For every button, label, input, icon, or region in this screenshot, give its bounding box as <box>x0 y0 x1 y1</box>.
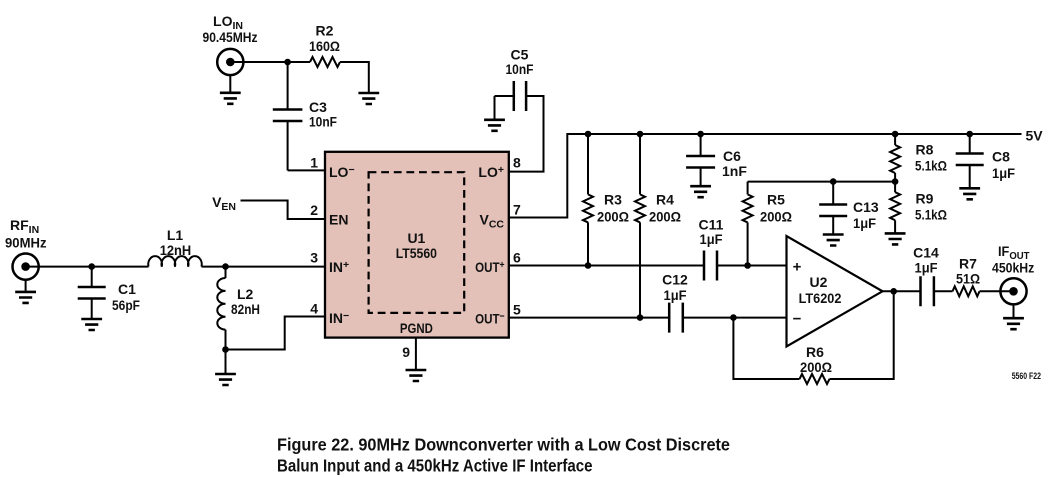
svg-text:12nH: 12nH <box>160 242 192 258</box>
svg-text:Balun Input and a 450kHz Activ: Balun Input and a 450kHz Active IF Inter… <box>277 455 593 475</box>
svg-text:90.45MHz: 90.45MHz <box>203 29 258 45</box>
svg-text:U2: U2 <box>810 274 828 290</box>
svg-text:5560 F22: 5560 F22 <box>1012 371 1041 381</box>
svg-text:200Ω: 200Ω <box>597 209 629 225</box>
svg-text:5.1kΩ: 5.1kΩ <box>915 158 947 174</box>
svg-text:R5: R5 <box>767 192 785 208</box>
svg-text:RFIN: RFIN <box>10 217 39 236</box>
svg-text:6: 6 <box>513 250 521 266</box>
svg-text:R2: R2 <box>316 23 334 39</box>
svg-text:7: 7 <box>513 202 521 218</box>
svg-text:5.1kΩ: 5.1kΩ <box>915 207 947 223</box>
svg-text:5V: 5V <box>1026 128 1044 144</box>
svg-text:2: 2 <box>310 202 318 218</box>
svg-text:R7: R7 <box>959 256 977 272</box>
svg-text:U1: U1 <box>407 230 425 246</box>
svg-text:160Ω: 160Ω <box>309 38 340 54</box>
svg-text:450kHz: 450kHz <box>992 260 1034 276</box>
svg-text:1nF: 1nF <box>722 163 747 179</box>
svg-text:LT6202: LT6202 <box>799 290 842 306</box>
svg-text:PGND: PGND <box>400 320 433 336</box>
svg-text:56pF: 56pF <box>112 297 140 313</box>
svg-text:200Ω: 200Ω <box>800 359 832 375</box>
svg-text:9: 9 <box>402 344 410 360</box>
svg-text:R9: R9 <box>916 191 934 207</box>
svg-text:EN: EN <box>329 212 348 228</box>
svg-text:82nH: 82nH <box>231 301 260 317</box>
svg-text:Figure 22. 90MHz Downconverter: Figure 22. 90MHz Downconverter with a Lo… <box>277 435 730 455</box>
svg-text:R4: R4 <box>656 192 674 208</box>
svg-text:5: 5 <box>513 302 521 318</box>
svg-text:3: 3 <box>310 250 318 266</box>
svg-text:90MHz: 90MHz <box>5 235 47 251</box>
svg-text:4: 4 <box>310 301 318 317</box>
svg-text:10nF: 10nF <box>309 114 337 130</box>
svg-text:+: + <box>793 259 802 276</box>
svg-text:C13: C13 <box>853 199 879 215</box>
svg-text:1μF: 1μF <box>992 165 1015 181</box>
svg-text:L1: L1 <box>167 227 184 243</box>
svg-text:8: 8 <box>513 155 521 171</box>
svg-text:C1: C1 <box>118 281 136 297</box>
svg-text:1μF: 1μF <box>700 231 723 247</box>
svg-text:R3: R3 <box>604 192 622 208</box>
svg-text:1: 1 <box>310 155 318 171</box>
svg-text:C8: C8 <box>992 149 1010 165</box>
svg-text:51Ω: 51Ω <box>956 271 980 287</box>
svg-text:1μF: 1μF <box>664 287 687 303</box>
svg-text:LT5560: LT5560 <box>396 245 437 261</box>
svg-text:R6: R6 <box>806 344 824 360</box>
svg-text:C6: C6 <box>723 148 741 164</box>
svg-text:R8: R8 <box>916 142 934 158</box>
svg-text:10nF: 10nF <box>506 61 534 77</box>
svg-text:L2: L2 <box>237 286 254 302</box>
svg-text:C12: C12 <box>662 272 688 288</box>
svg-text:200Ω: 200Ω <box>760 209 792 225</box>
svg-text:200Ω: 200Ω <box>649 209 681 225</box>
svg-text:1μF: 1μF <box>853 215 876 231</box>
svg-text:1μF: 1μF <box>915 260 938 276</box>
svg-text:C14: C14 <box>913 245 939 261</box>
svg-text:−: − <box>793 311 802 328</box>
svg-text:VEN: VEN <box>212 194 236 213</box>
